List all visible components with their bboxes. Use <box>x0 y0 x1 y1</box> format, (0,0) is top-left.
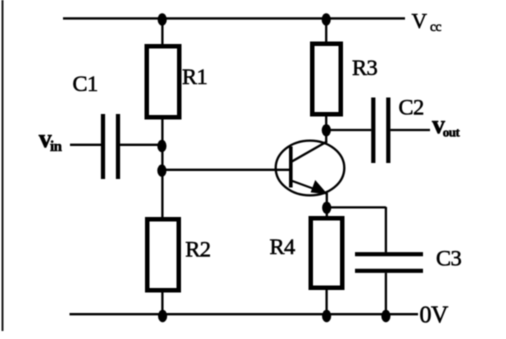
wire: Vcc top rail <box>63 17 405 19</box>
wire: base wire to transistor <box>162 169 290 171</box>
resistor R1 <box>147 46 180 117</box>
svg-text:cc: cc <box>430 19 441 34</box>
wire: emitter node to C3 branch <box>327 206 386 208</box>
wire: C3 branch bottom <box>385 273 387 314</box>
wire: R1 bottom to R2 top (base divider wire) <box>161 117 163 219</box>
capacitor C1 <box>103 114 118 179</box>
wire: C3 branch top <box>385 207 387 252</box>
wire: R4 bottom lead <box>325 288 327 315</box>
svg-text:in: in <box>50 139 63 155</box>
junction dot collector / C2 <box>322 124 331 136</box>
svg-text:C3: C3 <box>436 246 462 271</box>
wire: 0V bottom rail <box>70 313 419 315</box>
resistor R3 <box>312 44 341 115</box>
svg-text:out: out <box>443 125 461 140</box>
label v_out <box>432 110 461 140</box>
junction dot C1 / divider <box>157 140 166 152</box>
resistor R4 <box>311 218 343 288</box>
junction dot bottom rail / R4 <box>322 310 331 322</box>
junction dot top rail / R1 <box>158 13 167 25</box>
wire: C2 to v_out <box>390 129 430 131</box>
left page border line <box>2 0 4 331</box>
wire: R2 bottom lead <box>161 290 163 314</box>
capacitor C2 <box>373 98 388 164</box>
svg-text:C1: C1 <box>73 71 98 96</box>
svg-text:0V: 0V <box>420 303 450 329</box>
junction dot top rail / R3 <box>322 13 331 25</box>
wire: emitter lead down to R4 <box>326 193 328 218</box>
svg-text:R4: R4 <box>270 234 296 259</box>
svg-text:R2: R2 <box>185 237 211 262</box>
svg-text:R1: R1 <box>182 64 207 89</box>
label Vcc <box>412 9 442 34</box>
wire: R1 top lead <box>161 18 163 46</box>
wire: R3 top lead <box>325 18 327 43</box>
junction dot bottom rail / C3 <box>381 310 390 322</box>
wire: C1 to divider node <box>120 144 162 146</box>
resistor R2 <box>147 219 179 290</box>
svg-text:V: V <box>412 9 428 33</box>
junction dot base wire <box>157 164 166 176</box>
junction dot bottom rail / R2 <box>158 310 167 322</box>
svg-text:R3: R3 <box>352 55 378 80</box>
wire: collector to C2 <box>326 129 371 131</box>
svg-text:C2: C2 <box>399 95 425 120</box>
junction dot emitter / R4 / C3 <box>322 202 331 214</box>
capacitor C3 <box>355 254 423 271</box>
wire: v_in input lead <box>70 144 101 146</box>
transistor Q1 <box>276 141 345 196</box>
label v_in <box>39 124 63 155</box>
wire: R3 bottom / collector lead <box>325 114 327 143</box>
